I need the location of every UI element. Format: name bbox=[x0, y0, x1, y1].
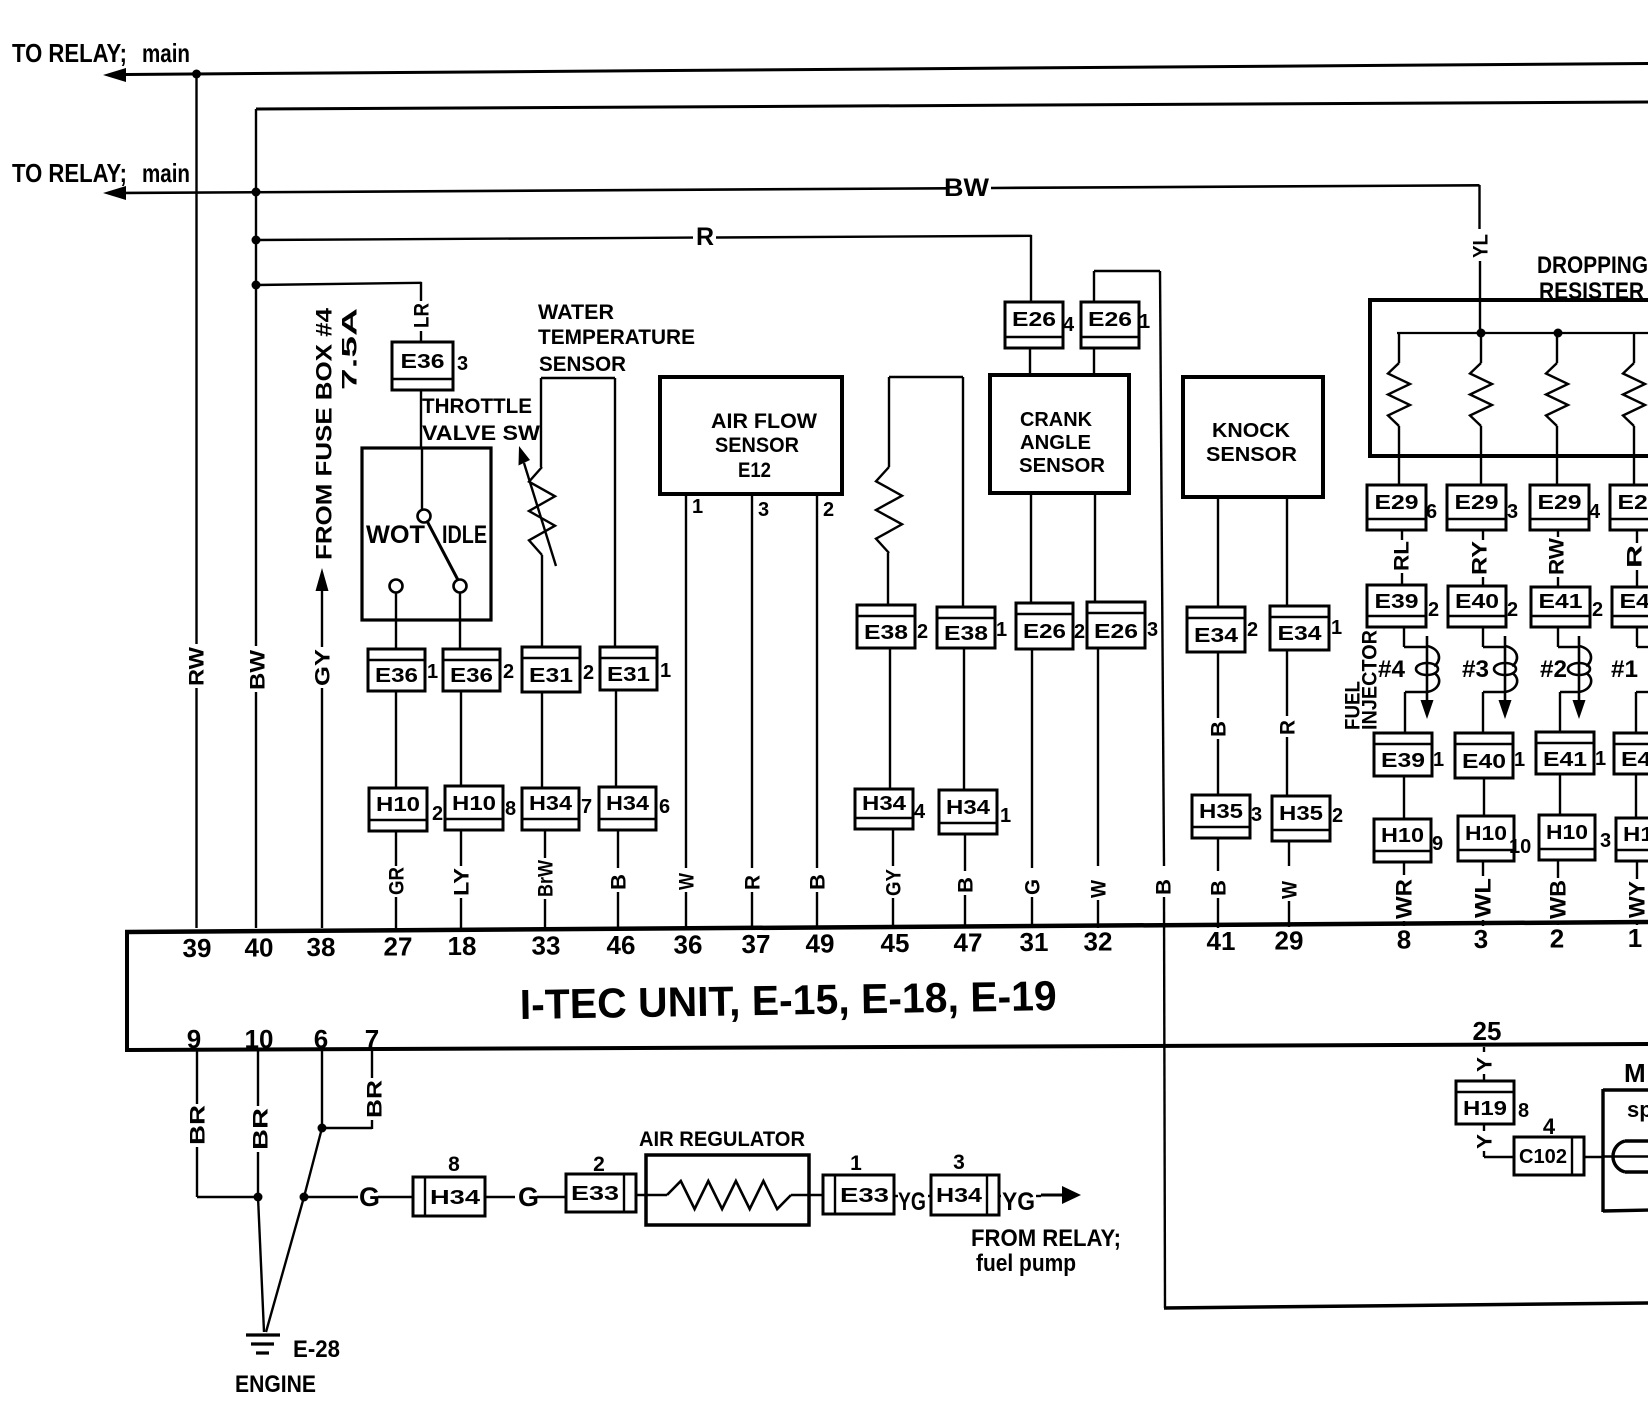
svg-text:IDLE: IDLE bbox=[442, 521, 487, 549]
svg-text:E26: E26 bbox=[1023, 621, 1066, 643]
fuel injector #4 bbox=[1403, 627, 1405, 647]
svg-text:1: 1 bbox=[1595, 748, 1606, 770]
wire E31-2 to H34-7 bbox=[541, 692, 543, 788]
svg-text:3: 3 bbox=[758, 499, 769, 521]
svg-text:AIR FLOW: AIR FLOW bbox=[711, 410, 817, 433]
connector H35 pin3 bbox=[1192, 795, 1250, 838]
svg-text:SENSOR: SENSOR bbox=[1206, 444, 1298, 466]
svg-text:32: 32 bbox=[1084, 927, 1113, 957]
svg-text:2: 2 bbox=[1247, 619, 1258, 641]
wire injector2 return to E41-1 bbox=[1560, 691, 1579, 693]
svg-text:WB: WB bbox=[1546, 880, 1571, 919]
svg-text:BR: BR bbox=[187, 1105, 210, 1145]
svg-text:10: 10 bbox=[1509, 836, 1531, 858]
wire GY bus lower bbox=[321, 688, 323, 928]
svg-text:1: 1 bbox=[692, 496, 703, 518]
svg-text:#2: #2 bbox=[1540, 656, 1567, 683]
svg-text:BR: BR bbox=[364, 1080, 387, 1118]
svg-text:9: 9 bbox=[1432, 833, 1443, 855]
svg-text:ANGLE: ANGLE bbox=[1020, 432, 1091, 454]
connector H10 pin2 bbox=[369, 788, 427, 831]
wire E26-1 to crank box bbox=[1093, 348, 1095, 375]
svg-text:10: 10 bbox=[245, 1024, 274, 1054]
wire airflow pin1 to I-TEC pin36 bbox=[685, 494, 687, 868]
svg-text:B: B bbox=[807, 874, 830, 890]
svg-text:SENSOR: SENSOR bbox=[539, 353, 626, 376]
wires E39/E40/E41 pin1 to H10 row bbox=[1403, 776, 1405, 819]
svg-text:RW: RW bbox=[186, 647, 209, 686]
wire E36-1 to H10-2 bbox=[395, 691, 397, 788]
svg-text:E31: E31 bbox=[607, 664, 650, 686]
motor horn symbol (cut at edge) bbox=[1613, 1141, 1648, 1172]
connector E41 pin1 bbox=[1536, 732, 1594, 774]
svg-text:E44: E44 bbox=[1620, 591, 1648, 613]
connector E26 pin4 bbox=[1005, 302, 1063, 348]
wire top supply line 1 bbox=[124, 64, 1648, 75]
svg-text:TO RELAY;: TO RELAY; bbox=[12, 158, 127, 188]
svg-text:C102: C102 bbox=[1519, 1146, 1567, 1168]
wire LR drop lower bbox=[420, 331, 422, 343]
wire pin7 to pin6 junction bbox=[322, 1127, 372, 1129]
wire knock to E34-1 bbox=[1286, 497, 1288, 606]
svg-text:36: 36 bbox=[674, 930, 703, 960]
svg-text:8: 8 bbox=[1397, 925, 1411, 955]
wire E38-1 to H34-1 bbox=[963, 648, 965, 790]
svg-text:7.5A: 7.5A bbox=[339, 308, 362, 390]
connector C102 pin4 bbox=[1514, 1137, 1584, 1175]
svg-text:6: 6 bbox=[1426, 501, 1437, 523]
wire H34-4 to pin45 bbox=[892, 829, 894, 866]
connector E29 pin4 bbox=[1530, 485, 1589, 530]
svg-text:2: 2 bbox=[583, 662, 594, 684]
svg-text:1: 1 bbox=[996, 619, 1007, 641]
wire H34-7 to pin33 bbox=[544, 830, 546, 858]
svg-text:main: main bbox=[142, 158, 190, 188]
wire E34-2 to H35-3 bbox=[1217, 652, 1219, 718]
svg-text:KNOCK: KNOCK bbox=[1212, 420, 1291, 442]
wire airflow pin2 to I-TEC pin49 bbox=[816, 494, 818, 868]
svg-text:E26: E26 bbox=[1088, 309, 1132, 331]
node pin9/pin10 bbox=[254, 1193, 263, 1202]
wire C102 to motor bbox=[1584, 1156, 1604, 1158]
svg-text:FROM FUSE BOX #4: FROM FUSE BOX #4 bbox=[312, 307, 337, 560]
svg-text:H35: H35 bbox=[1199, 801, 1243, 823]
svg-text:R: R bbox=[696, 223, 714, 251]
svg-text:1: 1 bbox=[427, 661, 438, 683]
svg-text:BR: BR bbox=[250, 1108, 273, 1150]
svg-text:E36: E36 bbox=[401, 351, 445, 373]
svg-text:29: 29 bbox=[1275, 925, 1304, 955]
svg-text:E36: E36 bbox=[375, 665, 418, 687]
svg-text:H10: H10 bbox=[1546, 822, 1588, 844]
wire H10-3 to pin2 bbox=[1557, 860, 1559, 878]
wire pin9 horizontal to junction bbox=[197, 1196, 258, 1198]
I-TEC unit box left edge bbox=[125, 930, 129, 1051]
svg-text:M: M bbox=[1624, 1058, 1646, 1088]
svg-text:SENSOR: SENSOR bbox=[1019, 455, 1106, 477]
svg-text:R: R bbox=[1624, 545, 1647, 568]
wire injector1 return (cut) bbox=[1636, 691, 1648, 693]
wire long B vertical (upper) bbox=[1160, 271, 1164, 866]
svg-text:E44: E44 bbox=[1621, 749, 1648, 771]
svg-text:45: 45 bbox=[881, 928, 910, 958]
node YL / resistor 2 bbox=[1477, 329, 1486, 338]
connector E26 pin3 bbox=[1087, 602, 1145, 648]
svg-text:TEMPERATURE: TEMPERATURE bbox=[538, 326, 695, 349]
svg-text:ENGINE: ENGINE bbox=[235, 1371, 316, 1398]
connector E26 pin1 bbox=[1081, 302, 1139, 348]
svg-text:3: 3 bbox=[1600, 830, 1611, 852]
svg-text:18: 18 bbox=[448, 931, 477, 961]
svg-text:33: 33 bbox=[532, 931, 561, 961]
resistor dropping #4 bbox=[1633, 333, 1635, 363]
connector H35 pin2 bbox=[1272, 796, 1330, 841]
svg-text:BrW: BrW bbox=[535, 860, 558, 897]
connector E44 pin2 (cut) bbox=[1612, 587, 1648, 627]
svg-text:TO RELAY;: TO RELAY; bbox=[12, 38, 127, 68]
connector E40 pin2 bbox=[1448, 586, 1506, 627]
svg-text:4: 4 bbox=[1063, 314, 1075, 336]
ground symbol E-28 bbox=[246, 1333, 280, 1336]
svg-text:CRANK: CRANK bbox=[1020, 409, 1093, 431]
connector H34 pin7 bbox=[522, 788, 579, 830]
wire BW line right part bbox=[991, 185, 1480, 188]
connector E40 pin1 bbox=[1455, 733, 1513, 778]
svg-text:6: 6 bbox=[659, 796, 670, 818]
svg-text:H10: H10 bbox=[376, 794, 420, 816]
svg-text:47: 47 bbox=[954, 928, 983, 958]
wire E26-1 up and over to long B wire bbox=[1093, 271, 1095, 302]
svg-text:H10: H10 bbox=[1381, 825, 1424, 847]
svg-text:DROPPING: DROPPING bbox=[1537, 252, 1648, 279]
wire airflow pin3 to I-TEC pin37 bbox=[751, 494, 753, 868]
connector E33 pin1 bbox=[823, 1175, 894, 1214]
svg-text:WL: WL bbox=[1471, 878, 1496, 918]
wire H10-10 to pin3 bbox=[1482, 861, 1484, 876]
wire YL drop from BW line bbox=[1478, 185, 1480, 229]
svg-text:2: 2 bbox=[1428, 599, 1439, 621]
wire pin10 to ground bbox=[258, 1197, 264, 1332]
wire E36-2 to H10-8 bbox=[460, 691, 462, 786]
svg-text:B: B bbox=[1208, 880, 1231, 896]
I-TEC unit box bottom edge bbox=[125, 1044, 1648, 1050]
svg-text:E26: E26 bbox=[1094, 621, 1138, 643]
wire stub inside switch box bbox=[421, 448, 423, 509]
svg-text:G: G bbox=[518, 1182, 539, 1212]
connector E38 pin2 bbox=[857, 605, 915, 648]
svg-text:LR: LR bbox=[411, 303, 434, 328]
svg-text:GR: GR bbox=[386, 867, 409, 895]
svg-text:3: 3 bbox=[953, 1151, 965, 1174]
svg-text:B: B bbox=[955, 877, 978, 893]
svg-text:G: G bbox=[1022, 879, 1045, 895]
svg-text:1: 1 bbox=[1514, 749, 1525, 771]
wire pin10 BR bbox=[257, 1050, 259, 1106]
svg-text:E33: E33 bbox=[840, 1185, 889, 1207]
svg-text:8: 8 bbox=[1518, 1100, 1529, 1122]
wire H35-3 to pin41 bbox=[1217, 838, 1219, 871]
connector E29 pin6 bbox=[1367, 485, 1426, 530]
svg-text:#1: #1 bbox=[1611, 656, 1638, 683]
thermistor arrow bbox=[524, 463, 556, 566]
svg-text:H10: H10 bbox=[452, 793, 496, 815]
svg-text:RW: RW bbox=[1546, 538, 1569, 575]
svg-text:1: 1 bbox=[850, 1152, 862, 1175]
connector E33 pin2 bbox=[566, 1174, 636, 1212]
wire E26-4 to crank box bbox=[1029, 348, 1031, 375]
svg-text:2: 2 bbox=[1550, 923, 1564, 953]
svg-text:4: 4 bbox=[914, 801, 926, 823]
svg-text:B: B bbox=[1208, 721, 1231, 737]
svg-text:LY: LY bbox=[451, 868, 474, 896]
svg-text:WATER: WATER bbox=[538, 301, 614, 324]
connector E29 pin3 bbox=[1447, 485, 1506, 530]
switch IDLE contact bbox=[454, 580, 467, 593]
svg-text:H34: H34 bbox=[946, 797, 991, 819]
connector E34 pin2 bbox=[1187, 607, 1245, 652]
knock sensor box bbox=[1183, 377, 1323, 497]
svg-text:fuel pump: fuel pump bbox=[976, 1250, 1076, 1277]
svg-text:E36: E36 bbox=[450, 665, 493, 687]
svg-text:H10: H10 bbox=[1465, 823, 1507, 845]
svg-text:WOT: WOT bbox=[366, 521, 425, 549]
wire BW bus lower bbox=[255, 692, 257, 928]
wire pin9 BR bbox=[196, 1050, 198, 1104]
wire through motor symbol bbox=[1603, 1155, 1648, 1158]
node BW bus / to-relay line bbox=[252, 188, 261, 197]
svg-text:YG: YG bbox=[898, 1188, 926, 1216]
arrow to relay main 1 bbox=[103, 68, 126, 82]
wire injector3 return to E40-1 bbox=[1483, 691, 1505, 693]
svg-text:BW: BW bbox=[247, 650, 270, 690]
svg-text:2: 2 bbox=[1074, 621, 1085, 643]
svg-text:H10: H10 bbox=[1623, 824, 1648, 846]
wire resistor bank bus bbox=[1397, 332, 1648, 334]
wire YL to resistor bank bbox=[1479, 261, 1481, 333]
connector E44 pin1 (cut) bbox=[1614, 733, 1648, 774]
svg-text:GY: GY bbox=[883, 869, 906, 896]
svg-text:3: 3 bbox=[1251, 804, 1262, 826]
svg-text:4: 4 bbox=[1589, 501, 1601, 523]
wire branch to E36-3 bbox=[256, 283, 422, 285]
wire pin25 Y to H19 bbox=[1483, 1047, 1485, 1052]
svg-text:G: G bbox=[359, 1182, 380, 1212]
svg-text:W: W bbox=[1279, 881, 1302, 899]
I-TEC unit box top edge bbox=[125, 922, 1648, 932]
svg-text:E38: E38 bbox=[944, 623, 988, 645]
svg-text:1: 1 bbox=[1139, 311, 1150, 333]
connector E31 pin1 bbox=[600, 647, 657, 690]
node slant/G wire bbox=[300, 1193, 309, 1202]
switch WOT contact bbox=[390, 580, 403, 593]
svg-text:3: 3 bbox=[1147, 619, 1158, 641]
air regulator heater coil bbox=[667, 1181, 791, 1209]
connector E34 pin1 bbox=[1270, 606, 1329, 650]
arrow to relay main 2 bbox=[103, 186, 126, 200]
wire E26-3 to pin32 bbox=[1097, 648, 1099, 866]
wire E33-2 to air regulator bbox=[636, 1194, 667, 1196]
wire H10-9 to pin8 bbox=[1403, 862, 1405, 875]
resistor dropping #2 bbox=[1480, 333, 1482, 363]
svg-text:E38: E38 bbox=[864, 622, 908, 644]
svg-text:H34: H34 bbox=[606, 793, 650, 815]
svg-text:W: W bbox=[676, 873, 699, 890]
node BW bus / R line bbox=[252, 236, 261, 245]
svg-text:1: 1 bbox=[660, 660, 671, 682]
svg-text:2: 2 bbox=[1592, 599, 1603, 621]
svg-text:YG: YG bbox=[1002, 1188, 1035, 1216]
svg-text:#4: #4 bbox=[1378, 656, 1406, 683]
svg-text:BW: BW bbox=[944, 174, 989, 202]
svg-text:37: 37 bbox=[742, 929, 771, 959]
wire GY bus upper bbox=[321, 590, 323, 647]
connector H10 pin3 bbox=[1539, 815, 1595, 860]
svg-text:E31: E31 bbox=[529, 665, 573, 687]
connector E36 pin1 bbox=[368, 649, 425, 691]
wire E38-2 to H34-4 bbox=[889, 648, 891, 789]
svg-text:H34: H34 bbox=[862, 793, 907, 815]
resistor dropping #3 bbox=[1556, 333, 1558, 363]
svg-text:Y: Y bbox=[1474, 1057, 1497, 1072]
wire E36-3 to throttle box bbox=[420, 390, 422, 449]
connector E26 pin2 bbox=[1016, 603, 1073, 649]
connector H34 pin8 bbox=[413, 1177, 485, 1216]
svg-text:FROM RELAY;: FROM RELAY; bbox=[971, 1225, 1121, 1252]
wire knock to E34-2 bbox=[1217, 497, 1219, 607]
svg-text:2: 2 bbox=[917, 621, 928, 643]
connector H10 pin10 bbox=[1458, 816, 1514, 861]
svg-text:WR: WR bbox=[1392, 879, 1417, 919]
air regulator box bbox=[646, 1155, 809, 1225]
wire water temp right leg to E31-1 bbox=[614, 378, 616, 648]
thermistor zigzag bbox=[529, 467, 555, 555]
wire crank to E26-3 bbox=[1094, 493, 1096, 602]
connector E39 pin2 bbox=[1367, 585, 1426, 627]
svg-text:40: 40 bbox=[245, 933, 274, 963]
svg-text:7: 7 bbox=[365, 1024, 379, 1054]
node BW bus / E36 branch bbox=[252, 281, 261, 290]
dropping resister box bbox=[1370, 300, 1648, 456]
wire H10-2 to pin27 bbox=[395, 831, 397, 866]
svg-text:4: 4 bbox=[1543, 1114, 1556, 1139]
air flow sensor box bbox=[660, 377, 842, 494]
svg-text:25: 25 bbox=[1473, 1016, 1502, 1046]
wire slanted pin6 to G junction bbox=[304, 1128, 322, 1197]
wire H10-8 to pin18 bbox=[460, 830, 462, 866]
svg-text:39: 39 bbox=[183, 933, 212, 963]
svg-text:2: 2 bbox=[1332, 805, 1343, 827]
svg-text:7: 7 bbox=[581, 796, 592, 818]
resistor dropping #1 bbox=[1398, 333, 1400, 363]
svg-text:I-TEC UNIT, E-15, E-18, E-: I-TEC UNIT, E-15, E-18, E-19 bbox=[519, 972, 1057, 1028]
wire E26-2 to pin31 bbox=[1031, 649, 1033, 868]
switch blade bbox=[427, 521, 458, 580]
svg-text:GY: GY bbox=[312, 649, 335, 686]
connector E38 pin1 bbox=[937, 607, 995, 648]
svg-text:main: main bbox=[142, 38, 190, 68]
wire H10-x to pin1 (cut) bbox=[1636, 861, 1638, 879]
arrow up from fuse box bbox=[316, 568, 329, 591]
wire injector4 return to E39-1 bbox=[1405, 691, 1427, 693]
wire R line drop to E26 pin4 bbox=[1030, 235, 1032, 303]
connector E36 pin2 bbox=[443, 649, 500, 691]
svg-text:SENSOR: SENSOR bbox=[715, 434, 799, 457]
lower unit box bottom edge bbox=[1164, 1303, 1648, 1308]
svg-text:31: 31 bbox=[1020, 927, 1049, 957]
connector E41 pin2 bbox=[1531, 587, 1590, 627]
svg-text:E39: E39 bbox=[1375, 591, 1419, 613]
connector E29 (cut at edge) bbox=[1610, 485, 1648, 530]
wire E34-1 to H35-2 bbox=[1286, 650, 1288, 716]
wire E33-1 to H34-3 with YG label bbox=[894, 1195, 898, 1197]
svg-text:E41: E41 bbox=[1543, 749, 1587, 771]
svg-text:B: B bbox=[1153, 879, 1176, 895]
svg-text:WY: WY bbox=[1625, 881, 1648, 918]
fuel injector #3 bbox=[1482, 627, 1484, 647]
svg-text:E33: E33 bbox=[571, 1183, 619, 1205]
svg-text:THROTTLE: THROTTLE bbox=[422, 395, 532, 418]
wire H35-2 to pin29 bbox=[1288, 841, 1290, 866]
svg-text:H35: H35 bbox=[1279, 803, 1323, 825]
throttle valve switch box bbox=[362, 448, 491, 620]
wire E31-1 to H34-6 bbox=[615, 690, 617, 787]
wire pin6 bbox=[321, 1050, 323, 1128]
connector E39 pin1 bbox=[1374, 733, 1432, 776]
svg-text:E39: E39 bbox=[1381, 750, 1425, 772]
wire H34-3 out with YG label bbox=[999, 1195, 1001, 1197]
wire R line left part bbox=[256, 238, 693, 240]
svg-text:1: 1 bbox=[1000, 805, 1011, 827]
wire R line right part bbox=[716, 236, 1032, 238]
connector H34 pin4 bbox=[855, 789, 913, 829]
svg-text:2: 2 bbox=[503, 661, 514, 683]
svg-text:E26: E26 bbox=[1012, 309, 1056, 331]
wire H19 to C102 bbox=[1483, 1124, 1485, 1131]
svg-text:VALVE SW: VALVE SW bbox=[422, 422, 540, 445]
wire IDLE contact to E36-2 bbox=[459, 593, 461, 651]
crank angle sensor box bbox=[990, 375, 1129, 493]
switch common contact bbox=[418, 510, 431, 523]
svg-text:1: 1 bbox=[1331, 617, 1342, 639]
wire BW line left part bbox=[124, 188, 946, 193]
svg-text:H34: H34 bbox=[529, 793, 573, 815]
svg-text:Y: Y bbox=[1474, 1134, 1497, 1149]
svg-text:E29: E29 bbox=[1375, 492, 1419, 514]
svg-text:1: 1 bbox=[1433, 749, 1444, 771]
svg-text:RY: RY bbox=[1469, 541, 1492, 575]
svg-text:E34: E34 bbox=[1278, 623, 1323, 645]
wire slanted to ground bbox=[266, 1197, 304, 1332]
svg-text:3: 3 bbox=[1507, 501, 1518, 523]
svg-text:3: 3 bbox=[457, 353, 468, 375]
svg-text:8: 8 bbox=[448, 1153, 460, 1176]
connector H34 pin3 bbox=[931, 1175, 999, 1215]
svg-text:E29: E29 bbox=[1538, 492, 1582, 514]
svg-text:E41: E41 bbox=[1539, 591, 1583, 613]
svg-text:E40: E40 bbox=[1455, 591, 1499, 613]
svg-text:2: 2 bbox=[1507, 599, 1518, 621]
svg-text:E29: E29 bbox=[1455, 492, 1499, 514]
connector H10 pin8 bbox=[445, 786, 503, 830]
svg-text:E29: E29 bbox=[1618, 492, 1648, 514]
svg-text:YL: YL bbox=[1470, 234, 1493, 258]
node resistor 3 tap bbox=[1554, 329, 1563, 338]
node pin6/pin7 bbox=[318, 1124, 327, 1133]
svg-text:H34: H34 bbox=[936, 1185, 983, 1207]
svg-text:W: W bbox=[1088, 880, 1111, 898]
arrow from relay fuel pump bbox=[1041, 1194, 1063, 1197]
svg-text:R: R bbox=[742, 875, 765, 890]
